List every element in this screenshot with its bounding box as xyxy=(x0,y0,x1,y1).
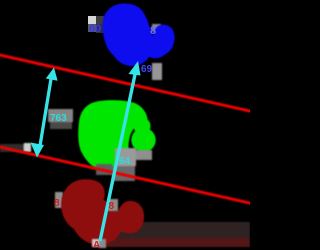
dark maroon stripe bottom right xyxy=(95,238,250,247)
red line L1 xyxy=(0,55,252,112)
svg-text:A: A xyxy=(93,240,100,250)
artifact block near red 8 right xyxy=(108,199,118,211)
artifact blocks near label A xyxy=(92,239,99,247)
svg-text:8: 8 xyxy=(54,198,60,209)
svg-text:8: 8 xyxy=(150,25,156,37)
artifact block below junction xyxy=(112,166,135,181)
artifact row left of dimension arrowhead xyxy=(0,144,24,152)
green blob knob xyxy=(131,128,155,152)
svg-text:64: 64 xyxy=(119,156,131,167)
artifact block right of label 64 xyxy=(136,150,152,160)
artifact block near label 763 xyxy=(48,109,73,122)
cyan dimension arrow between red lines xyxy=(31,68,58,158)
artifact block near label 69 xyxy=(152,63,162,80)
svg-text:763: 763 xyxy=(50,113,67,124)
artifact block below 763 xyxy=(50,122,72,129)
artifact block below label 64 xyxy=(119,166,135,172)
svg-text:8: 8 xyxy=(109,201,115,212)
artifact band above dark stripe xyxy=(112,222,250,238)
svg-text:69: 69 xyxy=(141,64,153,75)
artifact block near red 8 left xyxy=(55,192,63,208)
green blob xyxy=(78,100,147,172)
long cyan arrow from A to blue blob xyxy=(100,61,141,241)
artifact block left of junction xyxy=(96,164,112,175)
red line L2 xyxy=(0,147,252,204)
blue blob xyxy=(102,3,174,66)
dark red blob xyxy=(61,179,144,245)
green blob knob neck xyxy=(134,118,151,135)
artifact block near dimension bottom arrowhead xyxy=(24,143,31,152)
artifact block near label 8 blue xyxy=(152,24,161,32)
svg-text:60: 60 xyxy=(89,23,101,35)
artifact block near label 64 xyxy=(115,148,136,166)
artifact block near label 60 xyxy=(88,16,104,33)
